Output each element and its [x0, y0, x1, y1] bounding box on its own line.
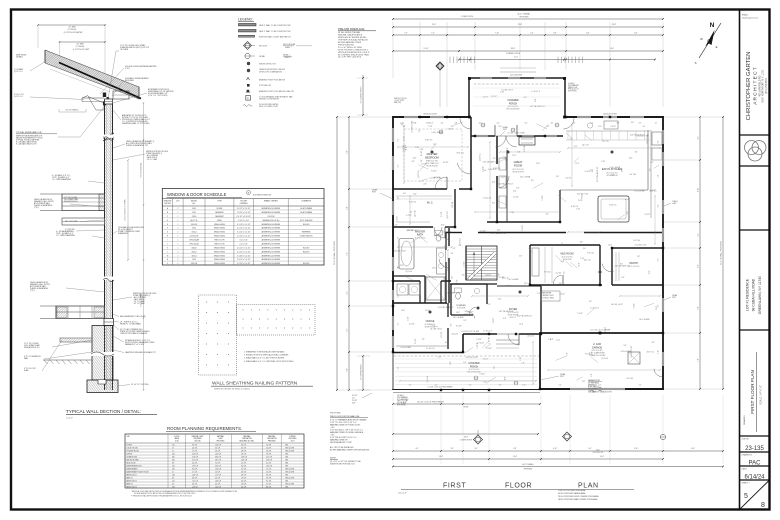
- svg-text:5.0 S.F.: 5.0 S.F.: [215, 483, 221, 485]
- svg-text:N: N: [710, 22, 715, 29]
- svg-text:YES 50 CFM: YES 50 CFM: [285, 468, 295, 470]
- svg-text:LG 1 3/4" x 9 1/2": LG 1 3/4" x 9 1/2": [430, 329, 442, 331]
- svg-text:3'-0 1/2" x 5'-0 1/2": 3'-0 1/2" x 5'-0 1/2": [237, 208, 251, 210]
- legend carbon monoxide detector symbol: [247, 69, 250, 72]
- svg-text:12'-4": 12'-4": [445, 342, 449, 344]
- svg-text:0.8 S.F.: 0.8 S.F.: [241, 471, 247, 473]
- svg-text:5 1/2": 5 1/2": [512, 155, 516, 157]
- plan exterior wall top right section: [565, 116, 664, 118]
- svg-text:2'-4": 2'-4": [493, 158, 496, 160]
- svg-text:YES: YES: [285, 486, 288, 488]
- svg-text:5'-2 1/2": 5'-2 1/2": [415, 338, 417, 344]
- svg-text:@ 16" O.C.: @ 16" O.C.: [14, 71, 24, 73]
- svg-text:LG 1 3/4" x 9 1/2": LG 1 3/4" x 9 1/2": [611, 304, 623, 306]
- plan kitchen island: [598, 196, 629, 222]
- svg-text:POST BELOW: POST BELOW: [259, 85, 271, 87]
- svg-text:8'-2 1/2": 8'-2 1/2": [486, 274, 492, 276]
- plan rear porch right wall: [564, 77, 566, 118]
- plan exterior wall top left section: [393, 116, 469, 118]
- wall section interior floor lines: [55, 306, 57, 319]
- svg-text:SHEETROCK: SHEETROCK: [588, 384, 597, 386]
- svg-text:@ 16" O.C.: @ 16" O.C.: [447, 210, 449, 218]
- svg-text:6'-8": 6'-8": [507, 147, 509, 150]
- plan stairs: [466, 246, 497, 280]
- legend bearing point post above symbol: [247, 78, 250, 81]
- svg-text:17'-2": 17'-2": [514, 57, 518, 59]
- svg-text:10'-0": 10'-0": [629, 157, 633, 159]
- svg-text:8'-8": 8'-8": [514, 448, 517, 450]
- svg-text:3'-0": 3'-0": [446, 239, 449, 241]
- svg-text:3050-2: 3050-2: [192, 232, 197, 234]
- svg-text:FIRST FLOOR PLAN: FIRST FLOOR PLAN: [750, 370, 755, 414]
- svg-text:TILE FLOOR: TILE FLOOR: [457, 308, 465, 310]
- svg-text:14'-8": 14'-8": [439, 456, 443, 458]
- plan windows porch back wall: [476, 135, 488, 137]
- svg-text:DAMPPROOFING BELOW GRADE TYP.: DAMPPROOFING BELOW GRADE TYP.: [125, 351, 157, 354]
- svg-text:2: 2: [177, 232, 178, 234]
- svg-text:3'-0": 3'-0": [492, 202, 495, 204]
- svg-text:10'-0": 10'-0": [691, 448, 695, 450]
- svg-text:3050-2: 3050-2: [192, 251, 197, 253]
- svg-text:3'-2": 3'-2": [479, 123, 482, 125]
- svg-text:15.9 S.F.: 15.9 S.F.: [266, 459, 273, 461]
- svg-text:TYPICAL HURRICANE CLIP: TYPICAL HURRICANE CLIP: [16, 131, 42, 134]
- svg-text:5'-2 1/2": 5'-2 1/2": [513, 196, 519, 198]
- svg-text:LIGHT: LIGHT: [672, 203, 677, 205]
- svg-text:116: 116: [172, 444, 175, 446]
- svg-text:@ 16" O.C. (TYP. FOR B): @ 16" O.C. (TYP. FOR B): [148, 95, 168, 97]
- svg-text:9'-8": 9'-8": [347, 150, 349, 154]
- svg-text:(TYP. FOR 8): (TYP. FOR 8): [397, 405, 406, 407]
- svg-text:(9'-0" CLG. HT.): (9'-0" CLG. HT.): [512, 169, 524, 171]
- svg-text:E=EGRESS WINDOW: E=EGRESS WINDOW: [253, 195, 271, 197]
- svg-text:MUD ROOM: MUD ROOM: [127, 462, 136, 464]
- plan windows right wall: [662, 130, 664, 144]
- svg-text:7.9 S.F.: 7.9 S.F.: [266, 453, 272, 455]
- svg-text:LG 1 3/4" x 9 1/2": LG 1 3/4" x 9 1/2": [429, 177, 441, 179]
- svg-text:6/14/24: 6/14/24: [744, 475, 765, 481]
- svg-text:FOYER: FOYER: [127, 444, 133, 446]
- svg-text:(2) 2 x 10: (2) 2 x 10: [528, 336, 535, 338]
- svg-text:12'-4": 12'-4": [519, 324, 523, 326]
- svg-text:YES: YES: [285, 456, 288, 458]
- legend existing wall symbol: [239, 35, 255, 37]
- svg-text:SINGLE-HUNG: SINGLE-HUNG: [214, 251, 226, 253]
- svg-text:SLR. 9'-1": SLR. 9'-1": [510, 317, 517, 319]
- svg-text:3050-2E: 3050-2E: [191, 263, 197, 265]
- svg-text:6'-8": 6'-8": [524, 97, 527, 99]
- svg-text:2: 2: [177, 251, 178, 253]
- plan right dimension line overall: [722, 117, 724, 389]
- svg-text:S: S: [695, 61, 697, 65]
- svg-text:149: 149: [172, 486, 175, 488]
- svg-text:PORCH: PORCH: [509, 103, 518, 105]
- svg-text:LG 2 x 10 HDR: LG 2 x 10 HDR: [634, 190, 645, 192]
- svg-text:OFFICE: OFFICE: [426, 320, 435, 323]
- svg-text:SINGLE-HUNG: SINGLE-HUNG: [214, 232, 226, 234]
- svg-text:7'-4 1/2": 7'-4 1/2": [542, 195, 544, 201]
- svg-text:6 1/2": 6 1/2": [426, 123, 430, 125]
- svg-text:2'-8": 2'-8": [548, 339, 551, 341]
- svg-text:1'-10": 1'-10": [510, 212, 514, 214]
- svg-text:3'-8": 3'-8": [451, 448, 454, 450]
- svg-text:SIMPSON STRONG TIE CS16: SIMPSON STRONG TIE CS16: [146, 151, 168, 153]
- svg-text:2'-8": 2'-8": [412, 161, 415, 163]
- plan rear porch door arcs: [495, 136, 506, 147]
- svg-text:SELF CLOSING DOOR: SELF CLOSING DOOR: [259, 106, 279, 108]
- svg-text:7'-1 1/2": 7'-1 1/2": [427, 126, 433, 128]
- svg-text:(2) 2 x 10: (2) 2 x 10: [415, 210, 417, 217]
- plan interior leader squiggle lines: [420, 164, 426, 171]
- svg-text:1'-10": 1'-10": [500, 91, 504, 93]
- plan rear porch top wall: [468, 77, 566, 79]
- svg-text:LG 2 x 10 HDR: LG 2 x 10 HDR: [508, 279, 519, 281]
- plan pantry shelves: [615, 252, 617, 281]
- svg-text:10'-0": 10'-0": [497, 230, 501, 232]
- plan hall wall below great room: [487, 221, 560, 223]
- plan top dimension line overall: [393, 18, 663, 20]
- plan front porch edge: [392, 389, 540, 391]
- plan water heater closet: [628, 352, 640, 364]
- svg-text:2.3 S.F.: 2.3 S.F.: [241, 447, 247, 449]
- svg-text:4'-1": 4'-1": [551, 123, 554, 125]
- svg-text:SUBSTITUTED FOR DBL TJI's: SUBSTITUTED FOR DBL TJI's: [330, 463, 355, 465]
- plan kitchen appliances: [652, 132, 662, 145]
- svg-text:COVERED PORCH: COVERED PORCH: [460, 440, 472, 442]
- window and door schedule table: [162, 189, 324, 266]
- svg-text:4'-0": 4'-0": [441, 123, 444, 125]
- plan front wall jog at foyer: [462, 334, 464, 353]
- legend detail marker symbol: [245, 53, 250, 58]
- wall section right dimension line: [143, 103, 145, 390]
- svg-text:1. SHEATHING TO BE INSTALLED W: 1. SHEATHING TO BE INSTALLED WITH 8d NAI…: [244, 351, 285, 354]
- title block logo circles: [745, 141, 759, 155]
- svg-text:LETTER: LETTER: [164, 203, 171, 205]
- svg-text:1'-10": 1'-10": [576, 208, 580, 210]
- svg-text:6'-8": 6'-8": [591, 373, 593, 376]
- svg-text:ELR 2 X DECKING: ELR 2 X DECKING: [468, 371, 482, 373]
- svg-text:10'-0": 10'-0": [456, 312, 460, 314]
- svg-text:5: 5: [744, 493, 748, 500]
- wall sheathing nail dots left panel: [205, 301, 208, 304]
- svg-text:7'-4": 7'-4": [404, 32, 408, 34]
- svg-text:8 1/2": 8 1/2": [352, 403, 356, 405]
- svg-text:2 1/2" OF CLOSED: 2 1/2" OF CLOSED: [64, 197, 78, 199]
- svg-text:(S.F.): (S.F.): [175, 440, 179, 442]
- svg-text:PLATES & SHEATHING TYP.: PLATES & SHEATHING TYP.: [126, 144, 149, 147]
- svg-text:CHRISTOPHER GARTEN: CHRISTOPHER GARTEN: [746, 52, 752, 121]
- svg-text:9'-0" CLG: 9'-0" CLG: [459, 237, 461, 244]
- svg-text:6'-8": 6'-8": [580, 242, 583, 244]
- svg-text:O.C. OVER SHEATHING: O.C. OVER SHEATHING: [52, 178, 72, 181]
- svg-text:LG 2 x 10 HDR: LG 2 x 10 HDR: [639, 319, 650, 321]
- svg-text:9'-0" COVERED PORCH: 9'-0" COVERED PORCH: [361, 87, 363, 104]
- svg-text:5'-2 1/2": 5'-2 1/2": [464, 261, 466, 267]
- svg-text:PROPOSED: PROPOSED: [519, 16, 529, 18]
- wall section foundation wall: [92, 326, 113, 381]
- wall section break symbol mid: [104, 277, 114, 280]
- plan great room left wall: [496, 136, 498, 164]
- svg-text:@ 16" O.C.: @ 16" O.C.: [649, 190, 657, 192]
- svg-text:6'-8": 6'-8": [620, 264, 623, 266]
- wall section stud wall strip: [105, 100, 113, 390]
- svg-text:3'-6": 3'-6": [623, 345, 626, 347]
- plan windows left wall: [392, 128, 394, 142]
- svg-text:3'-4": 3'-4": [698, 233, 700, 237]
- svg-text:1.7 S.F.: 1.7 S.F.: [192, 450, 198, 452]
- svg-text:7'-10": 7'-10": [495, 32, 499, 34]
- svg-text:POST & (2) 2 x 8: POST & (2) 2 x 8: [568, 89, 579, 91]
- svg-text:5 1/2": 5 1/2": [497, 298, 501, 300]
- svg-text:3.4 S.F.: 3.4 S.F.: [266, 447, 272, 449]
- svg-text:5'-2 1/2": 5'-2 1/2": [480, 230, 486, 232]
- svg-text:27.6 S.F.: 27.6 S.F.: [192, 456, 199, 458]
- svg-text:8'-10": 8'-10": [634, 448, 638, 450]
- svg-text:7'-4 1/2": 7'-4 1/2": [397, 216, 399, 222]
- plan windows top wall: [404, 116, 418, 118]
- svg-text:5'-0": 5'-0": [347, 206, 349, 210]
- svg-text:POST: POST: [503, 129, 507, 131]
- svg-text:30'-8" OVERALL PROPOSED: 30'-8" OVERALL PROPOSED: [333, 240, 336, 265]
- svg-text:9.5 S.F.: 9.5 S.F.: [266, 474, 272, 476]
- svg-text:W/ 12" SHELVES: W/ 12" SHELVES: [300, 220, 313, 222]
- svg-text:6'-2": 6'-2": [525, 123, 528, 125]
- svg-text:PROPOSED: PROPOSED: [524, 468, 533, 470]
- svg-text:2'-4": 2'-4": [438, 357, 441, 359]
- plan kitchen counter line: [560, 189, 648, 191]
- plan master bath door arc: [439, 259, 449, 268]
- svg-text:13.4 S.F.: 13.4 S.F.: [266, 465, 273, 467]
- svg-text:490 LARKFIELD RD: 490 LARKFIELD RD: [759, 75, 762, 96]
- svg-text:(SIMPSON STRONG TIE H2502 & LS: (SIMPSON STRONG TIE H2502 & LSTA 21): [214, 388, 250, 391]
- svg-text:3'-8": 3'-8": [553, 32, 557, 34]
- svg-text:12'-4": 12'-4": [536, 163, 540, 165]
- svg-text:POST: POST: [372, 192, 376, 194]
- svg-text:L.G. 1 3/4" x 16" LG. GIRDE: L.G. 1 3/4" x 16" LG. GIRDER: [590, 330, 611, 332]
- svg-text:EXISTING WALL ("LATH" AND PATC: EXISTING WALL ("LATH" AND PATCH): [259, 36, 291, 39]
- plan french door leaves rear porch: [494, 125, 496, 136]
- plan wic bottom wall: [393, 226, 433, 228]
- svg-text:5'-2 1/2": 5'-2 1/2": [421, 163, 427, 165]
- svg-text:GREAT: GREAT: [514, 160, 523, 164]
- wall section strap dimension line: [127, 160, 129, 260]
- svg-text:BRAND / SERIES: BRAND / SERIES: [264, 200, 278, 203]
- svg-text:WALL SHEATHING NAILING PATT: WALL SHEATHING NAILING PATTERN: [212, 381, 298, 387]
- svg-text:UTILITY ROOM: UTILITY ROOM: [127, 447, 139, 449]
- svg-text:SINGLE-HUNG: SINGLE-HUNG: [214, 263, 226, 265]
- svg-text:NAIL SHEATHING TO ALL PLATE: NAIL SHEATHING TO ALL PLATE: [120, 315, 147, 318]
- plan mud room cubbies: [544, 247, 546, 283]
- svg-text:SLIDER: SLIDER: [217, 208, 224, 210]
- svg-text:REQUIRED: REQUIRED: [194, 438, 203, 440]
- svg-text:1.9 S.F.: 1.9 S.F.: [241, 477, 247, 479]
- svg-text:LG 1 3/4" x 9 1/2": LG 1 3/4" x 9 1/2": [501, 89, 513, 91]
- svg-text:A R C H I T E C T: A R C H I T E C T: [753, 67, 759, 105]
- svg-text:POST: POST: [672, 297, 676, 299]
- svg-text:N.Y.S.R.C. #P303: N.Y.S.R.C. #P303: [543, 298, 554, 300]
- svg-text:12'-4": 12'-4": [575, 163, 579, 165]
- room planning requirements table: [125, 434, 304, 488]
- svg-text:5.3 S.F.: 5.3 S.F.: [241, 453, 247, 455]
- plan rear porch decking lines: [473, 87, 561, 89]
- legend bearing point post above and below symbol: [247, 90, 250, 93]
- svg-text:118: 118: [172, 468, 175, 470]
- svg-text:16.4 S.F.: 16.4 S.F.: [215, 486, 222, 488]
- svg-text:2.7 S.F.: 2.7 S.F.: [266, 483, 272, 485]
- svg-text:12'-4": 12'-4": [429, 123, 433, 125]
- svg-text:2 x 10 C.J.'S: 2 x 10 C.J.'S: [585, 171, 593, 173]
- svg-text:2.3 S.F.: 2.3 S.F.: [215, 450, 221, 452]
- svg-text:34'-0" OVERALL PROPOSED: 34'-0" OVERALL PROPOSED: [720, 240, 723, 265]
- svg-text:7.1 S.F.: 7.1 S.F.: [266, 468, 272, 470]
- svg-text:6.3 S.F.: 6.3 S.F.: [241, 474, 247, 476]
- plan garage bottom wall: [539, 388, 664, 390]
- svg-text:2: 2: [177, 208, 178, 210]
- plan utility room walls: [419, 281, 421, 303]
- svg-text:2.3 S.F.: 2.3 S.F.: [215, 471, 221, 473]
- svg-text:5'-10": 5'-10": [658, 350, 660, 354]
- svg-text:SHEATHING): SHEATHING): [118, 232, 129, 235]
- svg-text:ELR 2 X DECKING: ELR 2 X DECKING: [507, 108, 521, 110]
- svg-text:6'-0": 6'-0": [698, 306, 700, 310]
- svg-text:(2) 2 x 10: (2) 2 x 10: [582, 144, 589, 146]
- svg-text:7'-4 1/2": 7'-4 1/2": [560, 293, 566, 295]
- wall section floor slab: [60, 338, 92, 342]
- svg-text:7'-0": 7'-0": [698, 358, 700, 362]
- svg-text:15'-10": 15'-10": [424, 48, 429, 50]
- legend section marker symbol: [244, 42, 252, 50]
- svg-text:(TYP): (TYP): [30, 290, 35, 292]
- wall section roof dimension line 1: [38, 24, 105, 26]
- north arrow compass: [699, 23, 721, 58]
- svg-text:3050-E: 3050-E: [191, 247, 196, 249]
- svg-text:SINGLE-HUNG: SINGLE-HUNG: [214, 259, 226, 261]
- svg-text:8'-2 1/2": 8'-2 1/2": [441, 331, 443, 337]
- plan wic closet rod lines: [396, 195, 452, 197]
- svg-text:9.4 S.F.: 9.4 S.F.: [192, 468, 198, 470]
- svg-text:3.8 S.F.: 3.8 S.F.: [192, 477, 198, 479]
- svg-text:6.0 S.F.: 6.0 S.F.: [241, 486, 247, 488]
- plan bottom porch girder dimension: [393, 403, 540, 405]
- svg-text:158: 158: [172, 474, 175, 476]
- svg-text:2.9 S.F.: 2.9 S.F.: [266, 477, 272, 479]
- svg-text:3'-0 1/2" x 5'-0 1/2": 3'-0 1/2" x 5'-0 1/2": [237, 247, 251, 249]
- wall section footing: [87, 380, 118, 393]
- svg-text:SHEET #: SHEET #: [285, 47, 292, 49]
- svg-text:TEMPERED: TEMPERED: [302, 232, 312, 234]
- svg-text:265: 265: [172, 459, 175, 461]
- svg-text:4'-0": 4'-0": [416, 448, 419, 450]
- svg-text:2'-4": 2'-4": [559, 283, 562, 285]
- svg-text:(10'-6" CLG. HT.): (10'-6" CLG. HT.): [591, 350, 603, 352]
- svg-text:2ND FLOOR JOISTS SHALL BE:: 2ND FLOOR JOISTS SHALL BE:: [330, 415, 360, 418]
- svg-text:NEW 6" WALL TO BE CONSTRUCTED: NEW 6" WALL TO BE CONSTRUCTED: [259, 24, 291, 27]
- svg-text:8'-2 1/2": 8'-2 1/2": [522, 225, 524, 231]
- svg-text:6'-8": 6'-8": [498, 273, 500, 276]
- svg-text:9'-0" CLG: 9'-0" CLG: [544, 272, 551, 274]
- svg-text:MULLED: MULLED: [303, 263, 310, 265]
- svg-text:LG 1 3/4" x 9 1/2" LG. PORCH: LG 1 3/4" x 9 1/2" LG. PORCH GIRDER: [417, 401, 445, 403]
- svg-text:LG 1 3/4" x 9 1/2": LG 1 3/4" x 9 1/2": [635, 244, 647, 246]
- svg-text:DRAWING: DRAWING: [743, 415, 746, 425]
- svg-text:3030: 3030: [192, 228, 196, 230]
- svg-text:38.0 S.F.: 38.0 S.F.: [215, 456, 222, 458]
- svg-text:3'-0": 3'-0": [483, 170, 486, 172]
- svg-text:4'-4": 4'-4": [475, 448, 478, 450]
- plan top dimension extension lines: [392, 22, 394, 78]
- svg-text:10'-0": 10'-0": [413, 157, 417, 159]
- svg-text:7'-4 1/2": 7'-4 1/2": [483, 358, 489, 360]
- wall section window band: [62, 194, 105, 211]
- svg-text:10'-0": 10'-0": [432, 268, 436, 270]
- svg-text:7'-4 1/2": 7'-4 1/2": [478, 343, 484, 345]
- plan left dimension extension lines: [337, 116, 392, 118]
- svg-text:9'-0" CLG: 9'-0" CLG: [633, 240, 640, 242]
- svg-text:SHEATHING (NAIL TO TOP PLATE): SHEATHING (NAIL TO TOP PLATE): [122, 122, 150, 125]
- svg-text:E: E: [167, 224, 168, 226]
- svg-text:15'-8": 15'-8": [518, 24, 523, 26]
- wall sheathing nailing pattern left panel: [199, 295, 237, 375]
- svg-text:20'-4": 20'-4": [600, 456, 604, 458]
- wall sheathing nail dots right panel: [242, 309, 245, 312]
- svg-text:13.0 S.F.: 13.0 S.F.: [215, 468, 222, 470]
- svg-text:LG 1 3/4" x 9 1/2": LG 1 3/4" x 9 1/2": [577, 193, 589, 195]
- svg-text:7'-4 1/2": 7'-4 1/2": [577, 313, 583, 315]
- svg-text:NEW 4" WALL TO BE CONSTRUCTED: NEW 4" WALL TO BE CONSTRUCTED: [259, 30, 291, 33]
- svg-text:11.9 S.F.: 11.9 S.F.: [192, 486, 199, 488]
- plan master bath walls: [393, 280, 420, 282]
- svg-text:LG 2 x 10 HDR: LG 2 x 10 HDR: [432, 132, 443, 134]
- svg-text:WOOD FLOOR: WOOD FLOOR: [426, 166, 438, 168]
- svg-text:3'-0": 3'-0": [652, 342, 655, 344]
- svg-text:YES 50 CFM: YES 50 CFM: [285, 447, 295, 449]
- svg-text:7'-4 1/2": 7'-4 1/2": [633, 303, 635, 309]
- svg-text:10'-0": 10'-0": [625, 199, 629, 201]
- svg-text:LG 2 x 10 HDR: LG 2 x 10 HDR: [621, 351, 632, 353]
- plan mud room bench: [532, 248, 539, 276]
- legend new 4in wall symbol: [239, 30, 257, 32]
- svg-text:VENTED TO EXT.: VENTED TO EXT.: [543, 295, 555, 297]
- svg-text:1: 1: [177, 224, 178, 226]
- svg-text:10'-0": 10'-0": [578, 262, 580, 266]
- svg-text:YES: YES: [285, 465, 288, 467]
- svg-text:15'-0": 15'-0": [432, 24, 437, 26]
- svg-text:7.5 S.F.: 7.5 S.F.: [215, 462, 221, 464]
- plan powder sink: [474, 288, 479, 293]
- svg-text:5 1/2": 5 1/2": [520, 356, 522, 360]
- wall section sill plate detail: [104, 319, 114, 326]
- svg-text:48: 48: [172, 477, 174, 479]
- svg-text:1: 1: [177, 228, 178, 230]
- svg-text:PROVIDED: PROVIDED: [289, 438, 298, 440]
- plan top dimension line 5: [459, 59, 655, 61]
- svg-text:FIRST: FIRST: [443, 483, 466, 490]
- svg-text:ROOM PLANNING REQUIREMENTS.: ROOM PLANNING REQUIREMENTS.: [167, 426, 242, 431]
- svg-text:4.1 S.F.: 4.1 S.F.: [266, 462, 272, 464]
- svg-text:2'-6 1/2" x 5'-0 1/2": 2'-6 1/2" x 5'-0 1/2": [237, 259, 251, 261]
- plan left porch dimension: [362, 75, 364, 115]
- svg-text:FORCED: FORCED: [289, 436, 296, 438]
- svg-text:6'-8": 6'-8": [561, 261, 564, 263]
- svg-text:1'-10": 1'-10": [415, 147, 419, 149]
- svg-text:E: E: [716, 45, 718, 49]
- plan front stoop steps: [496, 339, 519, 341]
- svg-text:8'-2 1/2": 8'-2 1/2": [491, 96, 497, 98]
- svg-text:L.G. 1 3/4" x 9 1/2" LG. HDR: L.G. 1 3/4" x 9 1/2" LG. HDR: [461, 331, 479, 333]
- svg-text:1: 1: [177, 212, 178, 214]
- svg-text:20.7 S.F.: 20.7 S.F.: [266, 456, 273, 458]
- svg-text:POST: POST: [560, 376, 564, 378]
